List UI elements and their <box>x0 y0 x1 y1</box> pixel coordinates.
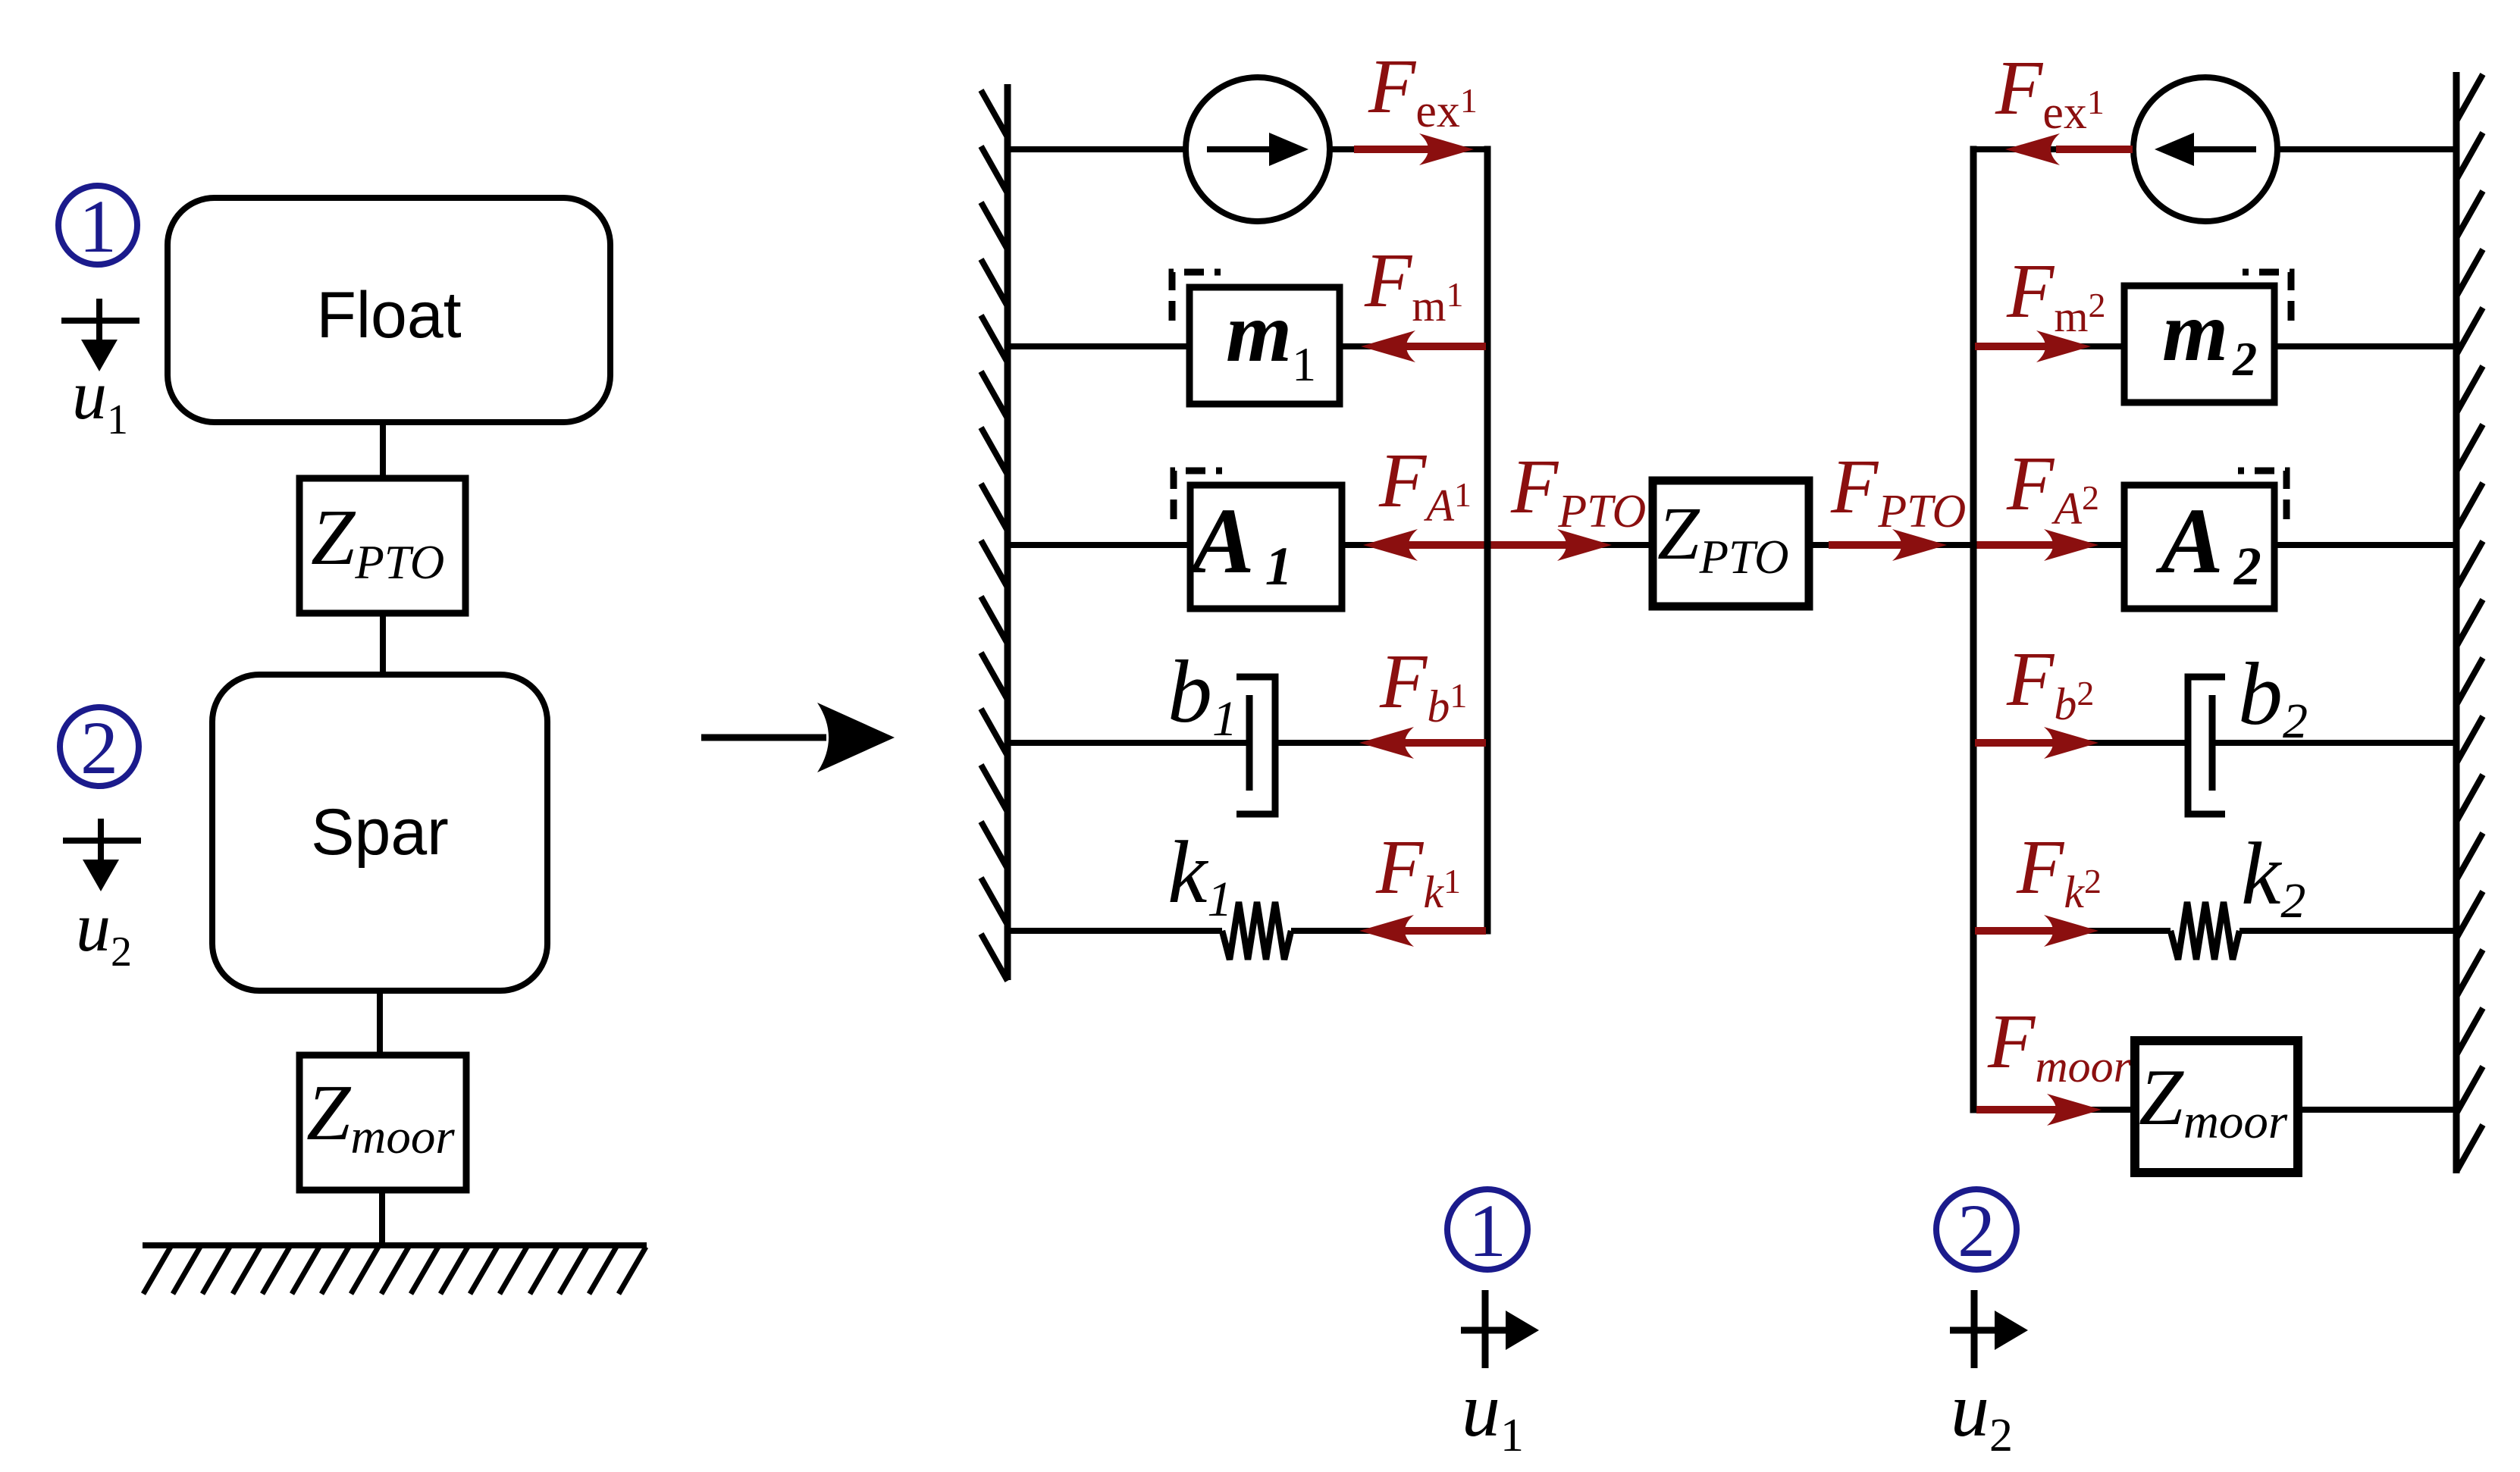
left node line (node 1) <box>1484 149 1491 931</box>
wire Z_moor to right wall <box>2298 1107 2456 1113</box>
wire damper b1 to node 1 <box>1275 740 1487 746</box>
wire wall to A1 <box>1008 542 1190 548</box>
wire source to node 1 <box>1330 146 1487 152</box>
arrow Fb2 <box>1975 739 2056 747</box>
spring k2 <box>2171 902 2239 960</box>
svg-text:Float: Float <box>316 279 461 352</box>
arrow Fmoor <box>1976 1106 2059 1113</box>
arrow FA2 <box>1975 541 2056 549</box>
wire node 2 to damper b2 <box>1973 740 2188 746</box>
arrow Fb1 <box>1401 739 1486 747</box>
arrow FA1 <box>1404 541 1486 549</box>
wire m2 to right wall <box>2274 343 2456 349</box>
node 1 line over PTO arrows (junction) <box>1484 534 1491 556</box>
node 1 badge (circuit) <box>1447 1189 1528 1270</box>
wire Z_PTO to Spar <box>380 612 386 676</box>
svg-text:2: 2 <box>1957 1189 1995 1273</box>
Z_moor box (circuit) <box>2135 1041 2298 1173</box>
Z_PTO box (left diagram) <box>299 478 465 613</box>
force source Fex1 (left) <box>1186 77 1330 221</box>
added-mass A2 box <box>2124 485 2274 609</box>
u2 velocity arrow (left diagram) <box>63 838 141 844</box>
wire Z_PTO to node 2 <box>1809 542 1973 548</box>
node 2 badge (circuit) <box>1936 1189 2017 1270</box>
svg-text:Spar: Spar <box>311 796 449 869</box>
Spar body box <box>212 675 547 991</box>
wire Z_moor to ground <box>379 1190 385 1247</box>
wire wall to spring k1 <box>1008 928 1222 934</box>
dashed corner A2 <box>2238 471 2286 519</box>
wire node 1 to Z_PTO <box>1487 542 1653 548</box>
svg-text:1: 1 <box>79 184 117 268</box>
wire spring k2 to right wall <box>2239 928 2456 934</box>
dashed corner m1 <box>1172 272 1221 321</box>
wire wall to damper b1 <box>1008 740 1249 746</box>
wire damper b2 to right wall <box>2212 740 2456 746</box>
wire node 2 to spring k2 <box>1973 928 2171 934</box>
arrow Fk2 <box>1975 927 2056 935</box>
arrow Fm1 <box>1403 343 1486 350</box>
added-mass A1 box <box>1190 485 1342 609</box>
Z_moor box (left diagram) <box>299 1055 466 1190</box>
u2 velocity arrow (circuit) <box>1971 1290 1978 1368</box>
spring k1 <box>1222 902 1291 960</box>
wire Spar to Z_moor <box>377 991 383 1057</box>
wire node 2 to Z_moor <box>1973 1107 2135 1113</box>
wire node 2 to A2 <box>1973 542 2124 548</box>
left wall (reference frame) <box>1005 84 1011 980</box>
arrow Fk1 <box>1401 927 1486 935</box>
big arrow (maps-to) <box>701 734 826 741</box>
Z_PTO box (circuit) <box>1653 481 1809 606</box>
arrow FPTO (right) <box>1829 541 1904 549</box>
node 2 line over PTO arrows (junction) <box>1970 534 1977 556</box>
arrow Fm2 <box>1975 343 2048 350</box>
wire A2 to right wall <box>2274 542 2456 548</box>
wire node 2 to m2 <box>1973 343 2124 349</box>
wire node 2 to source Fex1 (right) <box>1973 146 2133 152</box>
svg-text:2: 2 <box>80 706 118 790</box>
mass m1 box <box>1189 287 1340 404</box>
arrow Fex1 (right) <box>2056 146 2133 153</box>
node 1 badge (left diagram) <box>58 186 137 265</box>
u1 velocity arrow (circuit) <box>1482 1290 1489 1368</box>
dashed corner A1 <box>1174 471 1222 519</box>
mass m2 box <box>2124 286 2274 402</box>
damper b1 <box>1246 695 1253 791</box>
arrow Fex1 (left) <box>1354 146 1437 153</box>
Float body box <box>168 198 610 422</box>
wire A1 to node 1 <box>1342 542 1487 548</box>
svg-text:1: 1 <box>1468 1189 1506 1273</box>
dashed corner m2 <box>2243 272 2291 321</box>
u1 velocity arrow (left diagram) <box>61 318 139 324</box>
wire source to right wall <box>2277 146 2456 152</box>
wire m1 to node 1 <box>1340 343 1487 349</box>
force source Fex1 (right) <box>2133 77 2277 221</box>
arrow FPTO (left) <box>1489 541 1569 549</box>
wire wall to source Fex1 <box>1008 146 1186 152</box>
ground symbol (left diagram) <box>143 1242 647 1248</box>
wire wall to m1 <box>1008 343 1189 349</box>
damper b2 <box>2209 695 2216 791</box>
right wall (reference frame) <box>2453 72 2460 1173</box>
node 2 badge (left diagram) <box>60 707 139 786</box>
wire Float to Z_PTO <box>380 422 386 480</box>
right node line (node 2) <box>1970 149 1977 1110</box>
wire spring k1 to node 1 <box>1291 928 1487 934</box>
